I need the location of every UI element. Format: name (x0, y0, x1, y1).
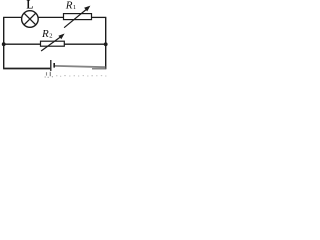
svg-text:R: R (65, 0, 73, 11)
wire bottom left segment (3, 68, 50, 70)
battery long plate (50, 60, 52, 71)
wire bottom right segment (55, 66, 106, 67)
node junction left (2, 42, 6, 46)
wire middle segment R2 to right junction (64, 43, 105, 45)
node junction right (104, 42, 108, 46)
wire middle segment junction to R2 (4, 43, 41, 45)
rheostat R1 body (64, 14, 92, 20)
wire top segment R1 to corner (92, 16, 107, 18)
svg-text:R: R (41, 28, 49, 40)
watermark smudge (45, 72, 107, 77)
wire bottom right corner piece (92, 68, 106, 70)
svg-text:2: 2 (49, 33, 52, 40)
rheostat R2 arrow (41, 34, 65, 52)
wire left vertical (3, 17, 5, 68)
svg-text:1: 1 (73, 4, 76, 11)
rheostat R2 body (41, 41, 65, 46)
wire top segment corner to lamp (3, 16, 22, 18)
battery short plate (53, 63, 55, 68)
wire right vertical (105, 17, 107, 69)
rheostat R1 arrow (64, 6, 90, 28)
wire top segment lamp to R1 (38, 16, 63, 18)
svg-text:L: L (27, 0, 34, 12)
lamp L (22, 11, 39, 28)
